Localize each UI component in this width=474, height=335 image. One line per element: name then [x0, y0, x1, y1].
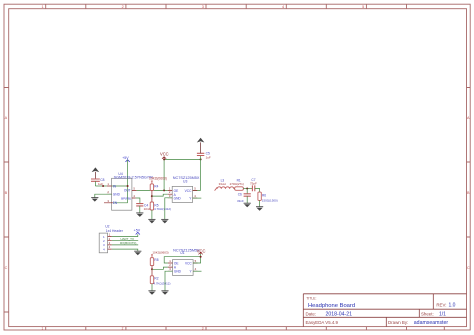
wire node down to C6 [246, 189, 248, 194]
inductor L3 [215, 178, 234, 190]
svg-text:5: 5 [362, 5, 364, 9]
svg-text:75pF: 75pF [250, 182, 257, 186]
wire C5 column down to U3 VCC pin [193, 156, 201, 191]
wire header pin1 to +5V [112, 234, 138, 236]
power +5V at header [134, 229, 141, 235]
node R8/R2 junction [151, 268, 153, 270]
svg-text:1: 1 [107, 182, 109, 186]
svg-text:3: 3 [202, 327, 204, 331]
node OUT wire / VCC drop [163, 189, 165, 191]
power flag above C5 [197, 138, 205, 143]
net VCC (upper) [160, 152, 169, 160]
svg-text:R4: R4 [154, 185, 158, 189]
title block [303, 294, 466, 327]
capacitor C4 [136, 204, 150, 213]
svg-text:5: 5 [133, 186, 135, 190]
svg-text:4.7KΩ(3412): 4.7KΩ(3412) [153, 281, 170, 285]
wire VCC rail horizontal and vertical [164, 159, 201, 190]
regulator U4 [104, 172, 153, 210]
svg-text:270Ω(271): 270Ω(271) [230, 182, 244, 186]
svg-text:GND: GND [174, 197, 182, 201]
ground at header pin4 [134, 251, 141, 255]
ground at U4 GND [91, 198, 98, 202]
svg-text:EN: EN [113, 201, 118, 205]
svg-text:adamseamster: adamseamster [414, 320, 449, 326]
wire L3 to R1 [233, 188, 236, 190]
net VCC (lower) [197, 249, 206, 255]
ground below U1 [161, 291, 168, 295]
svg-text:R2: R2 [154, 276, 158, 280]
capacitor C8 [91, 178, 105, 186]
svg-text:B: B [5, 191, 8, 195]
svg-text:10KΩ(0603): 10KΩ(0603) [149, 177, 167, 181]
svg-text:U3: U3 [183, 180, 187, 184]
ground below R5 [148, 219, 155, 223]
svg-text:Drawn By:: Drawn By: [388, 320, 408, 325]
wire U4 BP pin to C4 [136, 198, 140, 203]
svg-text:Sheet:: Sheet: [421, 312, 434, 317]
svg-text:2: 2 [107, 190, 109, 194]
wire header pin3 [112, 244, 138, 246]
wire R1 to C7 [243, 188, 252, 190]
svg-text:GND: GND [174, 270, 182, 274]
svg-text:A: A [5, 116, 8, 120]
svg-text:4: 4 [282, 5, 284, 9]
svg-text:4: 4 [103, 247, 105, 251]
svg-text:5: 5 [195, 259, 197, 263]
node +5V to IN pin [127, 185, 129, 187]
resistor R8 [150, 255, 158, 269]
svg-text:VCC: VCC [185, 261, 192, 265]
svg-text:10nF: 10nF [144, 207, 151, 211]
svg-text:R6: R6 [262, 193, 266, 197]
svg-text:Date:: Date: [306, 312, 317, 317]
wire U4 GND pin to ground [95, 194, 112, 197]
svg-text:C6: C6 [238, 193, 242, 197]
node R4/R5 to U3 A [151, 195, 153, 197]
svg-text:U1: U1 [180, 251, 184, 255]
node C6 tap [246, 188, 248, 190]
wire U4 OUT to U3 OE [137, 189, 168, 191]
svg-text:10KΩ(0603): 10KΩ(0603) [152, 251, 168, 255]
capacitor C5 [197, 142, 211, 159]
svg-text:B: B [467, 191, 470, 195]
svg-text:+5V: +5V [122, 156, 129, 160]
svg-text:1: 1 [42, 5, 44, 9]
svg-text:4.7KΩ(3412): 4.7KΩ(3412) [154, 207, 171, 211]
svg-text:VCC: VCC [160, 152, 169, 157]
svg-text:RX(BOOT0): RX(BOOT0) [120, 241, 136, 245]
svg-text:C: C [467, 266, 470, 270]
resistor R6 [258, 192, 278, 207]
node on IN wire [102, 185, 104, 187]
svg-text:1/1: 1/1 [439, 312, 446, 318]
wire U3 GND to ground [165, 198, 172, 220]
ground below C4 [136, 213, 143, 217]
svg-text:1uF: 1uF [206, 155, 211, 159]
svg-text:4: 4 [133, 194, 135, 198]
capacitor C7 [250, 178, 257, 191]
wire U1 Y stub [193, 270, 201, 272]
svg-text:Y: Y [189, 197, 192, 201]
svg-text:GND: GND [113, 193, 121, 197]
buffer U3 [168, 176, 200, 203]
svg-text:3: 3 [202, 5, 204, 9]
svg-text:2: 2 [122, 327, 124, 331]
resistor R5 [150, 202, 171, 219]
wire U1 GND to ground [165, 271, 173, 291]
svg-text:4: 4 [195, 267, 197, 271]
wire node to U1 pin A [152, 267, 168, 269]
svg-text:Headphone Board: Headphone Board [308, 303, 355, 309]
node U1 VCC junction [200, 256, 202, 258]
wire C8 to U4 IN [95, 185, 106, 187]
svg-text:REV:: REV: [436, 302, 446, 307]
capacitor C6 [237, 193, 251, 204]
svg-text:TITLE:: TITLE: [306, 296, 316, 300]
svg-text:4: 4 [194, 194, 196, 198]
ground below R6 [256, 207, 263, 211]
buffer U1 [168, 248, 200, 275]
resistor R2 [150, 269, 170, 291]
svg-text:BP(FB): BP(FB) [121, 196, 131, 200]
svg-text:1.0: 1.0 [449, 302, 456, 308]
svg-text:+5V: +5V [134, 229, 141, 233]
svg-text:C: C [5, 266, 8, 270]
svg-text:150Ω(1500): 150Ω(1500) [262, 198, 278, 202]
svg-text:3: 3 [169, 267, 171, 271]
svg-text:R8: R8 [154, 258, 158, 262]
ground below U3 [161, 219, 168, 223]
svg-text:EasyEDA V5.4.9: EasyEDA V5.4.9 [306, 320, 339, 325]
wire node to U3 pin A [152, 194, 168, 196]
wire VCC down to U1 VCC pin [193, 254, 201, 263]
svg-text:SGM2019-2.5YN5G/TR: SGM2019-2.5YN5G/TR [114, 176, 154, 180]
svg-text:3: 3 [107, 199, 109, 203]
header U2 [99, 225, 124, 253]
wire U3 Y stub [193, 197, 202, 199]
resistor R4 [150, 181, 158, 202]
wire header pin2 [112, 240, 138, 242]
node VCC right [200, 158, 202, 160]
wire U1 OE loop to VCC [164, 257, 200, 263]
power +5V [122, 156, 130, 162]
svg-text:4: 4 [109, 245, 111, 249]
svg-text:1: 1 [42, 327, 44, 331]
svg-text:U2: U2 [105, 225, 109, 229]
svg-text:5: 5 [194, 186, 196, 190]
svg-text:VCC: VCC [185, 189, 192, 193]
wire +5V rail into U4 (IN and EN) [112, 160, 128, 203]
ground below C6 [244, 203, 251, 207]
power flag above C8 [92, 167, 100, 179]
resistor R1 [230, 178, 244, 190]
svg-text:OUT: OUT [124, 189, 131, 193]
svg-text:33nF: 33nF [237, 199, 244, 203]
wire header pin4 to ground [112, 249, 138, 251]
svg-text:2: 2 [122, 5, 124, 9]
ground below R2 [148, 291, 155, 295]
node VCC left [163, 158, 165, 160]
svg-text:Y: Y [190, 270, 193, 274]
wire C7 to R6 [255, 189, 260, 193]
svg-text:2018-04-21: 2018-04-21 [326, 312, 353, 318]
svg-text:A: A [467, 116, 470, 120]
svg-text:33uH: 33uH [219, 182, 226, 186]
